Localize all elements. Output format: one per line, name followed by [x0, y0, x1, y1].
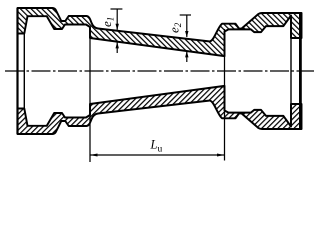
svg-text:e1: e1 [99, 17, 116, 27]
svg-text:Lu: Lu [150, 137, 163, 154]
svg-text:e2: e2 [166, 22, 183, 33]
